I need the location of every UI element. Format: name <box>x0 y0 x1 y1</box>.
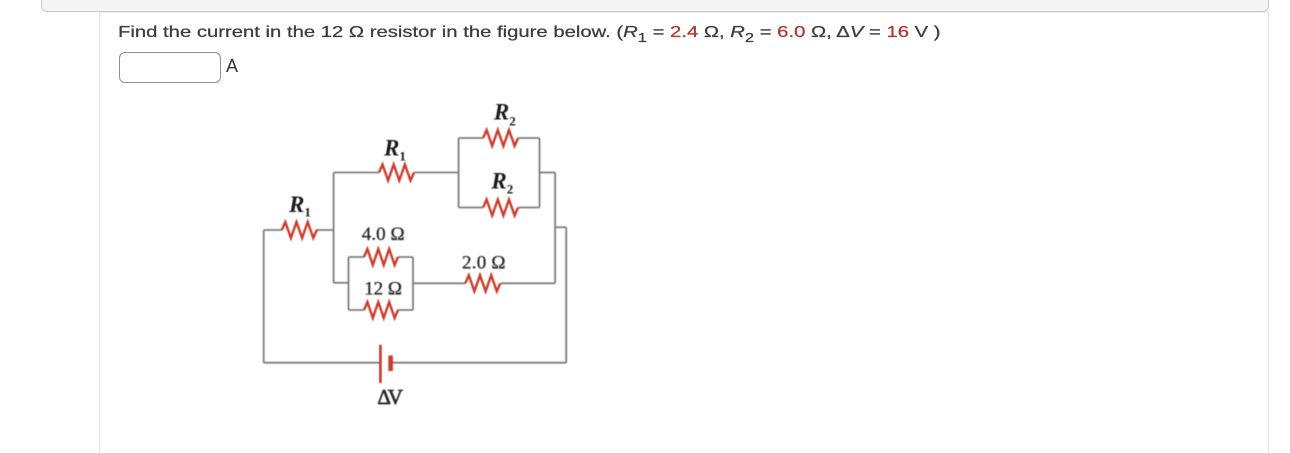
svg-text:ΔV: ΔV <box>377 385 403 409</box>
svg-text:2.0 Ω: 2.0 Ω <box>462 252 506 273</box>
svg-text:R1: R1 <box>288 192 311 220</box>
svg-text:12 Ω: 12 Ω <box>364 278 402 299</box>
svg-text:R2: R2 <box>493 100 516 129</box>
svg-text:R2: R2 <box>490 168 513 196</box>
svg-text:R1: R1 <box>383 135 406 163</box>
svg-text:4.0 Ω: 4.0 Ω <box>362 224 405 245</box>
